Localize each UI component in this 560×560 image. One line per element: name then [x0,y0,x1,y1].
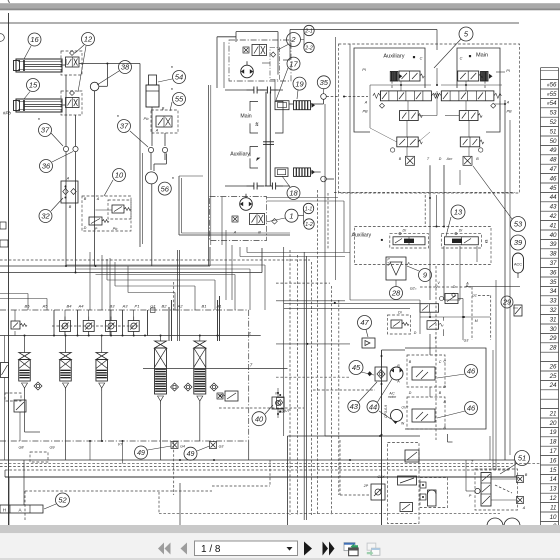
aux pilot solenoid [390,72,402,82]
boundary wire (dash-dot) [0,309,249,311]
wire [209,247,211,266]
svg-text:A1: A1 [216,304,222,309]
wire [106,64,108,87]
valve block 10 [82,196,131,231]
svg-text:35: 35 [550,279,557,286]
wire [468,121,470,138]
wire [400,81,402,91]
wire [265,92,267,186]
wire [164,153,166,160]
reducing valve 10a [112,205,131,213]
svg-text:A: A [506,101,510,105]
orifice 7a [217,393,223,399]
svg-text:#55: #55 [547,91,557,98]
wire [0,272,262,274]
svg-text:46: 46 [550,175,557,182]
svg-text:16: 16 [550,457,557,464]
svg-text:A: A [233,231,237,235]
svg-text:14: 14 [550,476,557,483]
wire [65,185,67,189]
hydraulic cylinder 15 (tilt) [14,99,63,112]
leader line [434,39,461,68]
svg-text:28: 28 [391,289,401,298]
wire [0,459,515,461]
callout 2-1 [304,25,314,35]
svg-text:26: 26 [549,363,557,370]
wire [65,152,67,266]
wire [476,246,478,262]
svg-text:D: D [414,331,417,335]
wire [217,300,219,341]
fan valve d [400,503,413,512]
wire [139,150,141,247]
aux valve 13L [393,237,425,245]
prev page button (disabled) [181,543,188,555]
svg-text:18: 18 [289,189,298,198]
wire [110,310,112,321]
wire [199,336,201,342]
wire [128,292,175,294]
previous window icon [344,543,358,556]
leader line [130,131,148,147]
leader line [361,372,374,375]
wire [465,286,520,288]
svg-text:34: 34 [550,288,557,295]
valve section 2 (tilt) [155,341,167,404]
junction [334,302,336,304]
junction [343,96,345,98]
wire [447,434,449,442]
wire [261,248,263,273]
cooler block frame [405,348,486,429]
valve 13R enclosure [441,234,481,248]
steering cylinder arc a [487,518,503,526]
wire [418,115,437,117]
wire [277,388,279,397]
junction [349,459,351,461]
leader line [446,217,451,236]
wire [142,153,144,244]
drive pump lower [240,194,253,211]
gauge port G4 [171,442,178,449]
drawing frame top border [0,22,519,24]
next window icon (disabled) [367,543,380,556]
pilot wire (dashed) [24,491,26,520]
fan valve enclosure [388,443,420,524]
svg-text:36: 36 [42,162,51,171]
junction [122,440,124,442]
pilot wire (dashed) [219,407,304,409]
svg-text:#Pb: #Pb [3,111,11,116]
check ball 37a [63,146,68,151]
svg-text:C: C [460,57,463,61]
fan valve a [405,450,419,462]
coupler lower [247,183,265,190]
small accumulator [428,490,437,506]
wire [504,100,506,460]
wire [65,59,67,65]
wire [369,85,371,128]
steering valve 51 enclosure [475,469,518,510]
wire [77,310,79,336]
load check valve 12a [66,57,80,67]
coupler aux upper [260,87,278,94]
junction [279,394,281,396]
wire [217,36,236,38]
wire [151,107,153,146]
wire [225,230,227,300]
svg-text:17: 17 [289,59,298,68]
wire [444,299,460,301]
wire [178,176,180,235]
wire [370,128,397,142]
valve 46a [412,367,435,380]
last page button [323,542,335,556]
wire [101,391,103,441]
wire [443,329,445,336]
pilot valve aux A [399,71,424,81]
wire [139,64,141,151]
table row numbers [547,81,557,530]
junction [101,335,103,337]
pilot wire (dashed) [313,389,375,391]
svg-text:B2: B2 [162,304,168,309]
pilot wire (dashed) [0,466,510,468]
acc orifice aux [406,156,415,165]
wire [349,44,351,300]
junction [88,335,90,337]
svg-text:37: 37 [550,260,557,267]
callout 43 [348,400,360,412]
pilot wire (dashed) [420,286,472,288]
svg-text:PB: PB [506,110,512,114]
leader line [437,374,465,378]
wire [88,310,90,321]
pilot wire (dashed) [311,262,313,515]
svg-text:39: 39 [550,241,557,248]
wire [324,104,326,436]
diamond node [272,219,278,225]
svg-text:36: 36 [550,269,557,276]
check valve [184,383,192,391]
svg-text:A: A [96,197,100,201]
leader line [278,45,289,51]
svg-text:B1: B1 [202,304,207,309]
wire [264,265,266,310]
svg-text:35: 35 [320,78,329,87]
wire [343,201,345,252]
wire [181,178,183,233]
callout 35 [317,76,330,89]
lower pump enclosure [210,197,267,241]
wire [53,310,55,336]
junction [160,335,162,337]
port B 51 [517,476,524,483]
svg-text:A: A [66,177,70,181]
svg-text:B: B [258,231,261,235]
wire [429,334,431,355]
drawing frame left border [8,13,10,526]
junction [381,355,383,357]
svg-text:A: A [465,282,469,286]
svg-text:46: 46 [467,367,476,376]
port square b [420,494,426,500]
callout 19 [293,77,306,90]
wire [323,99,325,104]
leader line [407,266,419,271]
junction [462,316,464,318]
wire [64,331,66,336]
wire [249,269,251,310]
leader line [437,411,465,418]
wire [311,103,324,105]
junction [65,186,67,188]
check valve [171,383,179,391]
wire [466,490,475,492]
junction [53,335,55,337]
leader line [51,198,63,211]
svg-text:43: 43 [350,402,359,411]
svg-text:2-2: 2-2 [304,45,313,51]
svg-text:40: 40 [550,232,557,239]
left edge port b [0,240,8,247]
svg-text:30: 30 [550,326,557,333]
port relief valve [106,317,117,336]
callout 2 [287,33,301,47]
pilot wire (dashed) [0,259,310,261]
wire [133,331,135,336]
callout 49 [184,447,197,460]
wire [174,293,176,311]
drain diamond 12b [70,91,75,96]
wire [160,336,162,342]
leader line [366,330,368,338]
svg-text:28: 28 [549,345,557,352]
wire [160,404,162,460]
wire [75,152,77,273]
wire [303,252,305,520]
svg-text:motor: motor [388,395,397,399]
junction [422,496,424,498]
leader line [24,46,31,59]
wire [445,115,459,117]
svg-text:32: 32 [41,212,50,221]
wire [65,75,67,146]
wire [94,91,96,266]
junction [443,226,445,228]
pilot wire (dashed) [484,81,486,88]
pressure valve aux [397,137,423,147]
wire [4,336,6,363]
wire [101,336,103,353]
orifice 40 [272,397,284,409]
aux valve 13R [445,237,479,245]
G1 port marker [151,308,156,313]
svg-text:47: 47 [550,166,557,173]
svg-text:51: 51 [550,128,557,135]
diamond junction 45 [367,371,372,376]
wire [179,250,181,341]
callout 56 [158,182,171,195]
hydraulic cylinder 16 (lift) [14,59,63,72]
wire [436,68,438,85]
wire [109,258,111,336]
wire [8,477,10,526]
svg-text:43: 43 [550,204,557,211]
svg-text:41: 41 [550,222,557,229]
parts reference table [541,68,559,526]
callout 55 [173,93,186,106]
wire [25,431,41,433]
drive pump upper [241,61,254,78]
main spool aux [373,91,439,101]
svg-text:52: 52 [550,119,557,126]
svg-text:39: 39 [514,238,523,247]
flow valve 47 [362,338,375,348]
svg-text:33: 33 [550,298,557,305]
junction [436,84,438,86]
port relief valve [128,317,139,336]
wire [27,294,29,311]
orifice upper [243,47,249,53]
wire [110,331,112,336]
callout 47 [358,316,372,330]
wire [283,59,290,61]
anti-cav valve [219,391,238,401]
junction [110,335,112,337]
wire [127,266,129,293]
valve 17 [275,101,289,110]
port diamond aux [380,103,385,108]
pilot wire (dashed) [276,282,330,284]
callout 1-2 [304,219,314,229]
wire [75,115,77,146]
svg-text:B: B [84,197,87,201]
svg-text:10: 10 [115,171,124,180]
wire [247,252,350,254]
check ball 37d [162,147,167,152]
svg-text:B: B [162,107,165,111]
wire [219,296,221,341]
leader line [500,464,516,474]
wire [147,310,149,336]
pilot wire (dashed) [391,81,393,88]
svg-text:1 / 8: 1 / 8 [201,544,221,555]
wire [14,310,16,321]
pilot wire (dashed) [5,469,510,471]
junction [504,103,506,105]
wire [214,280,216,310]
wire [177,250,179,341]
callout 1 [285,209,298,222]
pilot wire (dashed) [326,96,338,98]
pilot box b [30,452,48,462]
pilot wire (dashed) [158,492,160,514]
main spool main [434,91,502,101]
wire [283,247,285,436]
svg-text:44: 44 [369,403,377,412]
svg-text:53: 53 [550,110,557,117]
port circle 51 [475,488,480,493]
wire [276,343,350,345]
pilot wire (dashed) [173,441,175,495]
orifice 32b [71,189,77,195]
junction [463,316,465,318]
wire [429,387,431,397]
wire [4,470,6,477]
wire [283,185,290,187]
svg-text:54: 54 [175,73,183,82]
orifice lower [232,216,238,222]
svg-text:B4: B4 [67,304,73,309]
wire [278,89,283,91]
wire [24,336,26,353]
bracket aux [250,147,258,169]
svg-text:19: 19 [550,429,557,436]
wire [267,200,345,202]
callout 46 [465,402,478,415]
gauge 56 [145,172,157,184]
leader line [148,446,172,450]
wire [143,368,288,370]
leader line [266,218,285,222]
pilot wire (dashed) [289,250,291,515]
wire [494,103,505,105]
aux half frame [354,48,425,132]
diamond 2 [271,52,276,57]
leader line [44,504,56,509]
fan valve c [371,484,385,500]
drain diamond 12a [70,51,75,56]
wire [14,331,16,336]
wire [88,331,90,336]
junction [381,434,383,436]
valve section 3 [96,353,108,392]
junction [89,440,91,442]
svg-text:38: 38 [121,63,130,72]
callout 13 [451,205,465,219]
port relief valve [60,317,71,336]
wire [429,198,431,300]
wire [406,147,408,156]
callout 37 [118,120,131,133]
wire [239,247,241,257]
svg-text:Main: Main [476,53,488,59]
leader line [282,176,290,187]
callout 28 [390,287,403,300]
pilot wire (dashed) [435,266,437,440]
leader line [75,45,84,53]
wire [513,307,518,309]
wire [24,391,26,432]
wire [0,335,261,337]
callout 17 [287,57,300,70]
svg-text:12: 12 [84,35,93,44]
svg-text:51: 51 [518,454,526,463]
pilot wire (dashed) [471,287,473,340]
wire [495,280,497,470]
node circle 18 [321,176,327,182]
fan block frame [288,436,421,526]
callout 38 [119,61,132,74]
wire [19,412,21,441]
accumulator ACC [513,253,524,278]
inner block 10 [108,200,131,219]
callout 40 [252,412,266,426]
pilot valve aux B [400,111,423,121]
wire [89,441,91,460]
pilot wire (dashed) [331,286,333,515]
